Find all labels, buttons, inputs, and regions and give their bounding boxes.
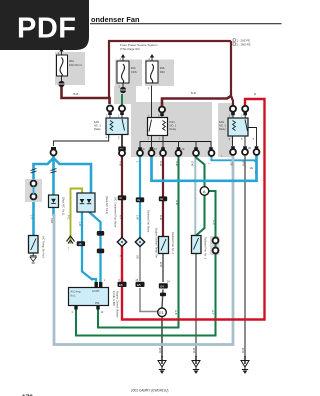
connector block on cyan pressure wire [77, 241, 85, 246]
svg-text:A: A [203, 189, 206, 194]
svg-text:FAN: FAN [94, 120, 99, 124]
ECM connector row E5 [136, 282, 145, 287]
svg-text:NO. 3: NO. 3 [219, 124, 226, 128]
svg-text:2D: 2D [248, 147, 251, 150]
svg-text:2002 CAMRY (EWD491U): 2002 CAMRY (EWD491U) [131, 389, 168, 393]
wire cyan diode2 left pin to amp [82, 212, 96, 282]
fuse FAN NO.2 [57, 48, 68, 81]
A/C temp switch no.1 box [29, 236, 39, 256]
svg-text:A/C Temp. Sw No.1: A/C Temp. Sw No.1 [42, 236, 46, 259]
svg-text:Radiator Fan No. 3: Radiator Fan No. 3 [204, 237, 208, 259]
inline connector shading right [210, 236, 220, 255]
wire slate shielded ring233 down around to diode box [54, 156, 233, 345]
svg-text:B-R: B-R [191, 91, 196, 95]
svg-text:PIM: PIM [95, 302, 99, 305]
svg-text:Radiator Fan No. 2: Radiator Fan No. 2 [171, 232, 175, 254]
wire B-R right border down from 1J [231, 41, 233, 105]
svg-text:L-R: L-R [97, 232, 101, 236]
svg-text:2E: 2E [182, 148, 185, 151]
ring connector relay A pin1 [119, 106, 125, 119]
wire black relay A pin2 down [121, 135, 123, 148]
diode box no.2 two diodes [77, 193, 95, 212]
wire slate ring196 down to temp switch 2 [194, 156, 196, 235]
ring connector relay C pin R [242, 106, 248, 118]
A/C amplifier box [69, 282, 109, 310]
wire thin RDI fuse to fan no.1 relay [151, 86, 153, 118]
svg-text:G-W: G-W [175, 200, 179, 206]
svg-text:L-W: L-W [136, 215, 140, 220]
svg-text:SLD: SLD [50, 218, 54, 223]
svg-text:NO. 1: NO. 1 [170, 124, 177, 128]
svg-text:FAN: FAN [170, 120, 175, 124]
connector block on maroon 162 [159, 196, 167, 201]
svg-text:R: R [254, 92, 256, 96]
svg-text:GR: GR [136, 255, 140, 259]
connector stubs above rings [108, 112, 258, 150]
svg-text:A/CPD: A/CPD [92, 290, 100, 293]
svg-text:SB: SB [230, 162, 234, 166]
wire cyan Y left arm [34, 158, 54, 179]
connector below fuse FAN NO.2 [59, 81, 65, 87]
svg-text:E4: E4 [160, 285, 164, 289]
svg-text:Engine Control Module: Engine Control Module [116, 291, 120, 318]
svg-text:R: R [119, 255, 123, 257]
ring connector fan no.1 relay pin5 [159, 107, 165, 118]
inline connector A6 rings [31, 181, 37, 200]
wire green ring178 to ECM via bottom [98, 156, 179, 328]
wire green circle A branch right down to amp [76, 191, 216, 336]
svg-text:Relay: Relay [219, 127, 226, 131]
svg-text:G-R: G-R [212, 220, 216, 225]
svg-text:NO. 2: NO. 2 [94, 124, 101, 128]
svg-text:CDS: CDS [131, 70, 137, 74]
wire maroon condenser fan motor feed [121, 155, 123, 238]
splice tick marks on cyan left branch [31, 169, 37, 174]
svg-text:R-Y: R-Y [119, 215, 123, 220]
wire cyan link ring211 [212, 156, 257, 160]
svg-text:IF: IF [119, 196, 122, 200]
inline connector shading A6 [25, 179, 42, 202]
svg-text:FAN NO.2: FAN NO.2 [69, 63, 82, 67]
title rule [90, 23, 282, 24]
svg-text:G-W: G-W [191, 161, 195, 167]
diamond junction connector on 138 [135, 238, 144, 247]
relay B FAN NO.1 [148, 118, 168, 136]
ring connector 1G relay A pin3 [107, 106, 113, 119]
svg-text:R-W: R-W [159, 215, 163, 221]
rotated component labels [42, 196, 208, 318]
ground 3 symbol [241, 356, 249, 373]
svg-text:(Dual A/C No.1): (Dual A/C No.1) [62, 197, 66, 215]
svg-text:W-B: W-B [158, 348, 162, 353]
ring row below bus [137, 150, 143, 156]
svg-text:IH: IH [160, 197, 163, 201]
wire grey below diamond 138 to circle E1 [140, 247, 158, 312]
svg-text:Radiator Fan Motor: Radiator Fan Motor [147, 210, 151, 232]
svg-text:(This Page 62): (This Page 62) [120, 47, 140, 51]
ground 2 symbol [192, 356, 200, 373]
wire thin relay outputs bus [140, 136, 211, 152]
connector blocks on cyan amp wire [97, 231, 104, 236]
svg-text:1G: 1G [142, 148, 145, 151]
svg-text:E6: E6 [119, 283, 123, 287]
ground symbol small A/C temp sw [30, 256, 37, 263]
svg-text:W-B: W-B [242, 161, 246, 166]
wire green fuse CDS to relay [121, 94, 123, 105]
svg-text:W-B: W-B [241, 348, 245, 353]
top right engine code notes [233, 39, 235, 41]
svg-text:E5: E5 [137, 283, 141, 287]
junction block shading below CDS fuse [114, 86, 136, 104]
wire green ring194 elbow to circle A [196, 155, 205, 187]
svg-text:PDF: PDF [17, 13, 77, 45]
wire cyan left branch through connector [32, 202, 35, 236]
PDF badge [0, 0, 89, 50]
inline connector rings right [213, 238, 219, 254]
svg-text:B-R: B-R [74, 92, 79, 96]
svg-text:No.1: No.1 [71, 294, 77, 297]
circle node E1 ground point [158, 308, 167, 317]
wire cyan from ring 140 down [139, 156, 141, 238]
svg-text:16: 16 [78, 242, 82, 246]
junction block shading left fuse [55, 52, 85, 85]
circle node A on green [200, 187, 209, 196]
connector block relay A out [118, 147, 126, 152]
ground 1 symbol [158, 356, 166, 373]
wire cyan U link from ring 151.5 to relay C [152, 155, 257, 181]
temp switch SW2 [192, 236, 202, 254]
svg-text:W-B: W-B [192, 348, 196, 353]
svg-text:A/C Condenser Fan Motor: A/C Condenser Fan Motor [114, 197, 118, 227]
splice tick marks on cyan [51, 169, 57, 174]
wire green circle A to temp switch 2 [196, 196, 205, 236]
svg-text:FAN: FAN [219, 120, 224, 124]
wire cyan Y right arm [54, 158, 92, 193]
svg-text:G-W: G-W [175, 161, 179, 167]
svg-text:E Fdb, E B/U: E Fdb, E B/U [112, 291, 116, 306]
page link arrow yellow-green wire [67, 236, 75, 244]
wire grey temp switch 2 to ground 2 [195, 254, 197, 358]
wire B-R from fuse FAN NO.2 to relay [62, 86, 110, 104]
svg-text:L-Y: L-Y [30, 215, 34, 219]
diode box dual pressure sw [49, 195, 59, 208]
junction ring A/C pressure branch [51, 147, 57, 156]
relay C FAN NO.3 [228, 118, 257, 146]
wire yellow-green diode to page arrow [71, 189, 83, 245]
connector block on maroon 122 [118, 195, 126, 200]
wire B-R branch to fan no.1 relay [162, 96, 231, 106]
svg-text:(Dual A/C No.1): (Dual A/C No.1) [105, 196, 109, 214]
junction block shading behind CDS/RDI fuses [115, 60, 142, 87]
svg-text:W-B: W-B [159, 262, 163, 267]
fuse CDS 30A [117, 54, 129, 87]
svg-text:R-W: R-W [119, 161, 123, 167]
wire red from diamond to ECM and around right [122, 99, 265, 320]
wire maroon ring162 to coolant temp switch [162, 156, 164, 237]
svg-text:ondenser Fan: ondenser Fan [91, 15, 140, 24]
relay A FAN NO.2 [106, 118, 128, 138]
svg-text:G-Y: G-Y [211, 310, 215, 315]
wire black coolant sw to circle E1 [162, 254, 163, 309]
connector below fuse CDS [120, 87, 126, 93]
svg-text:L-B: L-B [78, 222, 82, 226]
fuse RDI 30A [146, 54, 158, 83]
svg-text:Engine Coolant Temp. Sw: Engine Coolant Temp. Sw [155, 228, 159, 258]
wire cyan diode2 right pin to amp [89, 212, 101, 282]
svg-text:R-W: R-W [159, 161, 163, 167]
diamond junction connector on 122 [117, 238, 126, 247]
svg-text:RDI: RDI [160, 70, 165, 74]
wire grey ring245 to ground 3 [244, 156, 246, 357]
ECM connector row E4 [159, 283, 168, 296]
svg-text:A/C Amp.: A/C Amp. [71, 290, 82, 294]
connector block on cyan 138 [136, 197, 144, 202]
engine coolant temp switch SW1 [159, 237, 169, 254]
svg-text:Y-G: Y-G [67, 215, 71, 219]
power source box border [109, 41, 231, 99]
wire grey circle E1 to ground 1 [161, 317, 163, 358]
svg-text:E1: E1 [159, 311, 163, 315]
wire thin relay A pin4 to junction ring [53, 135, 108, 147]
wire cyan A/C pressure Y center [52, 156, 55, 216]
svg-text:Relay: Relay [170, 127, 177, 131]
svg-text:Relay: Relay [94, 127, 101, 131]
junction block shading relay area [131, 102, 212, 157]
svg-text:2 : 1MZ-FE: 2 : 1MZ-FE [237, 43, 251, 47]
svg-text:G-B: G-B [174, 310, 178, 315]
svg-text:2E: 2E [250, 167, 253, 170]
ring connector relay C pin from 1J [230, 106, 236, 118]
ECM connector row E6 [118, 277, 127, 287]
rotated wire labels mid section [30, 161, 257, 353]
